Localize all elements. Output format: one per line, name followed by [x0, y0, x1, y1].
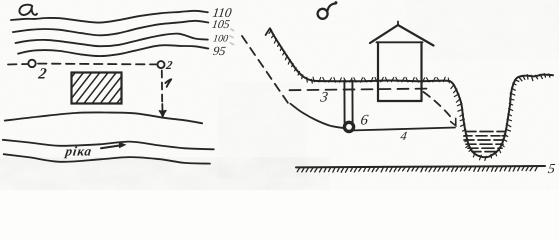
- svg-text:105: 105: [211, 17, 231, 31]
- svg-text:ріка: ріка: [64, 144, 94, 159]
- svg-text:100: 100: [212, 34, 229, 45]
- svg-text:95: 95: [212, 44, 226, 58]
